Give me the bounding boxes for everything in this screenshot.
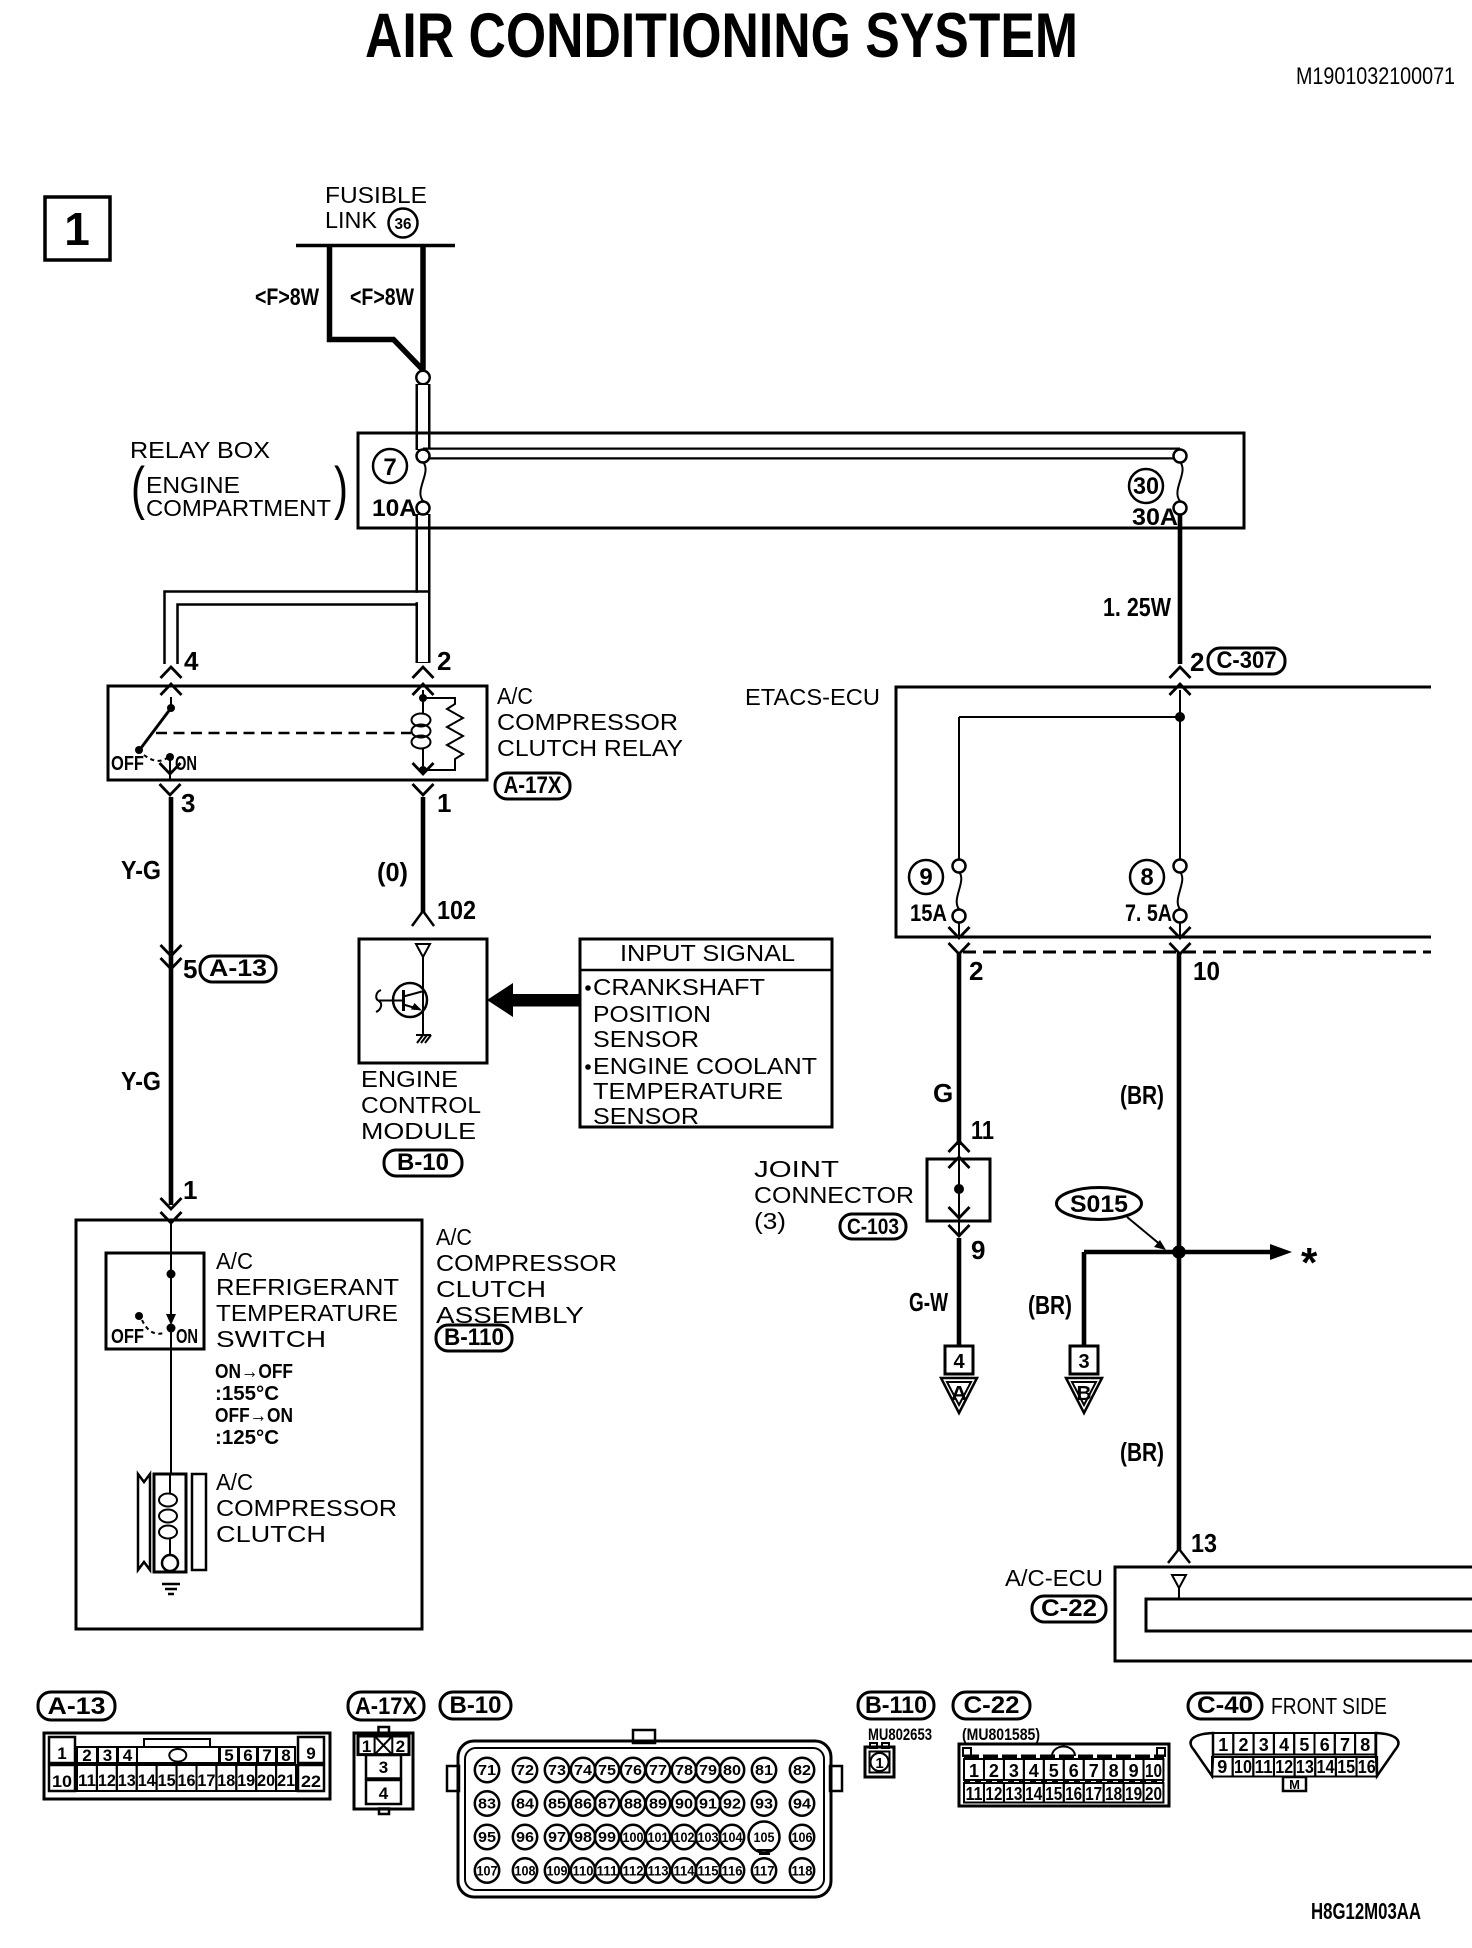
svg-text:13: 13 — [1191, 1528, 1217, 1558]
svg-text:12: 12 — [98, 1771, 116, 1790]
svg-text:M1901032100071: M1901032100071 — [1296, 63, 1455, 90]
svg-text:112: 112 — [623, 1864, 644, 1879]
svg-text:16: 16 — [1065, 1784, 1082, 1804]
connector C-22 drawing — [959, 1744, 1169, 1806]
svg-text:94: 94 — [793, 1796, 812, 1813]
svg-text:14: 14 — [138, 1771, 157, 1790]
ECM pin symbol — [416, 944, 430, 957]
terminal 3 — [1070, 1346, 1098, 1374]
svg-text:8: 8 — [1140, 864, 1153, 891]
svg-text:LINK: LINK — [325, 207, 378, 233]
svg-text:82: 82 — [793, 1762, 811, 1779]
connector A-17X drawing — [379, 1727, 390, 1733]
inline connector 5 A-13 — [161, 945, 182, 956]
svg-text:OFF: OFF — [111, 753, 144, 775]
svg-text:10: 10 — [1145, 1761, 1162, 1781]
relay pin 3 — [160, 763, 181, 774]
svg-text:17: 17 — [1085, 1784, 1102, 1804]
svg-text:73: 73 — [548, 1762, 566, 1779]
svg-text:71: 71 — [478, 1762, 496, 1779]
relay pin 2 — [413, 667, 434, 678]
svg-text:9: 9 — [1129, 1761, 1139, 1781]
ground inside ECM — [416, 1035, 431, 1043]
svg-text:FUSIBLE: FUSIBLE — [325, 182, 427, 208]
A/C compressor clutch relay box A-17X — [108, 686, 487, 780]
svg-text:13: 13 — [118, 1771, 136, 1790]
A/C compressor clutch coil — [138, 1474, 150, 1570]
svg-text:COMPRESSOR: COMPRESSOR — [497, 709, 678, 735]
svg-text:2: 2 — [989, 1761, 999, 1781]
svg-text:102: 102 — [437, 895, 476, 925]
wire (BR) from ETACS pin10 — [1177, 953, 1182, 1551]
connector B-10 drawing — [633, 1730, 655, 1743]
svg-text:72: 72 — [516, 1762, 534, 1779]
input signal box — [580, 939, 832, 1127]
svg-text:18: 18 — [217, 1771, 235, 1790]
svg-text:19: 19 — [1125, 1784, 1142, 1804]
terminal 4 — [945, 1346, 973, 1374]
svg-text:103: 103 — [698, 1830, 719, 1845]
svg-text:FRONT SIDE: FRONT SIDE — [1271, 1693, 1387, 1719]
connector C-40 drawing — [1191, 1733, 1213, 1776]
svg-text:4: 4 — [379, 1784, 389, 1803]
svg-text:1: 1 — [1218, 1735, 1228, 1755]
svg-text:110: 110 — [573, 1864, 594, 1879]
svg-text:7: 7 — [1340, 1735, 1350, 1755]
svg-text:3: 3 — [1078, 1351, 1089, 1373]
relay box outline — [358, 433, 1244, 528]
svg-text:C-22: C-22 — [1041, 1595, 1097, 1622]
svg-text:95: 95 — [478, 1829, 496, 1846]
svg-text:91: 91 — [699, 1796, 717, 1813]
connector label B-10 — [384, 1150, 462, 1176]
svg-text:96: 96 — [516, 1829, 534, 1846]
fusible link right leg <F>8W — [420, 245, 426, 371]
svg-text:118: 118 — [792, 1864, 813, 1879]
svg-text:4: 4 — [953, 1351, 965, 1373]
svg-text:2: 2 — [969, 956, 983, 986]
svg-text:8: 8 — [281, 1746, 290, 1765]
svg-text:107: 107 — [477, 1864, 498, 1879]
ETACS pin 10 output — [1170, 927, 1191, 938]
svg-text:OFF: OFF — [111, 1326, 144, 1348]
svg-text:3: 3 — [103, 1746, 112, 1765]
svg-text:A-17X: A-17X — [355, 1693, 417, 1720]
svg-text:2: 2 — [82, 1746, 91, 1765]
wire (double line) bus fuse7 to fuse30 — [423, 448, 1180, 460]
svg-text:78: 78 — [675, 1762, 693, 1779]
relay pin 1 — [413, 763, 434, 774]
svg-text:15: 15 — [1337, 1757, 1355, 1777]
fuse 8 7.5A — [1130, 860, 1164, 894]
ETACS dashed boundary — [963, 951, 1431, 954]
svg-text:109: 109 — [547, 1864, 568, 1879]
svg-text:15: 15 — [1045, 1784, 1062, 1804]
svg-text:99: 99 — [598, 1829, 616, 1846]
destination triangle B — [1066, 1378, 1102, 1413]
wire G from ETACS pin2 — [957, 953, 962, 1145]
svg-text:2: 2 — [1190, 647, 1204, 677]
svg-text:100: 100 — [623, 1830, 644, 1845]
svg-text:G: G — [933, 1078, 953, 1108]
svg-text:30: 30 — [1133, 473, 1159, 500]
svg-text:114: 114 — [674, 1864, 695, 1879]
connector label B-10 — [440, 1692, 511, 1719]
svg-text:21: 21 — [277, 1771, 295, 1790]
svg-text:C-22: C-22 — [964, 1692, 1020, 1719]
terminal at fusible link output — [416, 371, 429, 384]
svg-text:12: 12 — [985, 1784, 1002, 1804]
fuse 9 15A — [909, 860, 943, 894]
svg-text:102: 102 — [674, 1830, 695, 1845]
svg-text:H8G12M03AA: H8G12M03AA — [1311, 1898, 1421, 1924]
svg-text:CLUTCH: CLUTCH — [216, 1521, 326, 1547]
svg-text:1: 1 — [64, 203, 90, 255]
svg-text:12: 12 — [1275, 1757, 1293, 1777]
wire 1.25W fuse30 to ETACS pin 2 — [1178, 514, 1183, 664]
svg-text:15A: 15A — [910, 900, 947, 927]
svg-text:2: 2 — [1238, 1735, 1248, 1755]
svg-text:C-103: C-103 — [847, 1214, 899, 1239]
svg-text::125°C: :125°C — [215, 1427, 279, 1449]
svg-text:116: 116 — [722, 1864, 743, 1879]
svg-text:8: 8 — [1360, 1735, 1370, 1755]
svg-text:7: 7 — [262, 1746, 271, 1765]
svg-text:A: A — [951, 1383, 967, 1405]
svg-text:CONTROL: CONTROL — [361, 1092, 481, 1118]
svg-text:Y-G: Y-G — [121, 855, 161, 885]
svg-text:11: 11 — [78, 1771, 96, 1790]
svg-text:90: 90 — [675, 1796, 693, 1813]
svg-text:22: 22 — [301, 1772, 321, 1791]
svg-text:(MU801585): (MU801585) — [962, 1725, 1040, 1744]
svg-text:5: 5 — [1299, 1735, 1309, 1755]
svg-text:OFF→ON: OFF→ON — [215, 1405, 293, 1427]
svg-text:3: 3 — [1259, 1735, 1269, 1755]
fusible link bus bar — [296, 244, 455, 248]
svg-text:CLUTCH: CLUTCH — [436, 1276, 546, 1302]
relay pin 4 — [161, 667, 182, 678]
svg-text:16: 16 — [1358, 1757, 1376, 1777]
svg-text:Y-G: Y-G — [121, 1066, 161, 1096]
svg-text:74: 74 — [574, 1762, 593, 1779]
svg-text:101: 101 — [648, 1830, 669, 1845]
transistor Q inside ECM — [393, 983, 427, 1017]
connector label A-17X — [348, 1692, 424, 1720]
ETACS pin 2 output — [949, 927, 970, 938]
svg-text:11: 11 — [971, 1115, 994, 1145]
svg-text:B-10: B-10 — [450, 1692, 502, 1719]
svg-text:ON: ON — [176, 1326, 198, 1348]
relay coil — [422, 690, 424, 702]
svg-text:AIR CONDITIONING SYSTEM: AIR CONDITIONING SYSTEM — [365, 1, 1078, 71]
fuse 7 10A — [373, 449, 407, 483]
svg-text:75: 75 — [598, 1762, 616, 1779]
svg-text:COMPRESSOR: COMPRESSOR — [436, 1250, 617, 1276]
connector label A-13 — [38, 1692, 115, 1720]
svg-text:86: 86 — [574, 1796, 592, 1813]
svg-text:(3): (3) — [754, 1208, 786, 1234]
wire (BR) branch to terminal 3 — [1084, 1252, 1179, 1346]
svg-text:16: 16 — [178, 1771, 196, 1790]
connector label B-110 — [858, 1692, 934, 1719]
ETACS-ECU box outline — [896, 687, 1431, 937]
svg-text:C-40: C-40 — [1197, 1692, 1253, 1719]
svg-text:CRANKSHAFT: CRANKSHAFT — [593, 974, 765, 1000]
svg-text:ON→OFF: ON→OFF — [215, 1361, 293, 1383]
relay switch — [170, 697, 172, 708]
svg-text:6: 6 — [243, 1746, 252, 1765]
wire branch to relay pin 4 — [165, 592, 430, 665]
svg-text:20: 20 — [257, 1771, 275, 1790]
svg-text:CONNECTOR: CONNECTOR — [754, 1182, 914, 1208]
svg-text:1. 25W: 1. 25W — [1103, 592, 1171, 622]
svg-text:4: 4 — [184, 646, 199, 676]
svg-text:106: 106 — [792, 1830, 813, 1845]
svg-text:S015: S015 — [1070, 1191, 1128, 1218]
svg-text:POSITION: POSITION — [593, 1001, 711, 1027]
splice S015 — [1057, 1188, 1142, 1220]
relay internal dashed link — [156, 732, 411, 735]
svg-text:A/C: A/C — [436, 1224, 472, 1250]
connector label C-40 — [1188, 1693, 1262, 1719]
svg-text:92: 92 — [723, 1796, 741, 1813]
destination triangle A — [941, 1378, 977, 1413]
svg-text:3: 3 — [379, 1758, 388, 1777]
wire (double line) fusible link to fuse 7 — [416, 384, 431, 450]
A/C refrigerant temperature switch — [106, 1253, 204, 1349]
svg-text:COMPRESSOR: COMPRESSOR — [216, 1495, 397, 1521]
svg-text:13: 13 — [1005, 1784, 1022, 1804]
svg-text:(0): (0) — [377, 857, 408, 887]
svg-text:77: 77 — [649, 1762, 667, 1779]
svg-text:SENSOR: SENSOR — [593, 1026, 699, 1052]
svg-text:3: 3 — [1009, 1761, 1019, 1781]
svg-text:9: 9 — [1217, 1757, 1227, 1777]
svg-text:<F>8W: <F>8W — [255, 284, 319, 311]
ECM pin 102 fork — [412, 911, 434, 926]
svg-text:30A: 30A — [1132, 504, 1178, 531]
svg-text:A/C-ECU: A/C-ECU — [1005, 1565, 1103, 1591]
svg-text:10: 10 — [1193, 956, 1220, 986]
wire Y-G relay pin3 to temperature switch — [169, 797, 174, 1205]
svg-text:98: 98 — [574, 1829, 592, 1846]
svg-text:7. 5A: 7. 5A — [1125, 900, 1172, 927]
engine control module box B-10 — [359, 939, 487, 1063]
connector label B-110 — [436, 1325, 512, 1351]
svg-text:6: 6 — [1069, 1761, 1079, 1781]
svg-text:87: 87 — [598, 1796, 616, 1813]
svg-text:80: 80 — [723, 1762, 741, 1779]
ground in clutch — [162, 1584, 180, 1594]
svg-text:JOINT: JOINT — [754, 1156, 839, 1182]
svg-text:CLUTCH RELAY: CLUTCH RELAY — [497, 735, 683, 761]
ETACS internal wires — [1179, 690, 1181, 859]
svg-text:ENGINE COOLANT: ENGINE COOLANT — [593, 1053, 817, 1079]
svg-text:MODULE: MODULE — [361, 1118, 476, 1144]
svg-text:117: 117 — [754, 1864, 775, 1879]
svg-text:9: 9 — [971, 1235, 985, 1265]
svg-text:10A: 10A — [372, 495, 417, 522]
svg-text:13: 13 — [1296, 1757, 1314, 1777]
svg-text:TEMPERATURE: TEMPERATURE — [216, 1300, 398, 1326]
svg-text:10: 10 — [1234, 1757, 1252, 1777]
svg-text:SWITCH: SWITCH — [216, 1326, 326, 1352]
svg-text:): ) — [334, 456, 348, 521]
svg-text:84: 84 — [516, 1796, 535, 1813]
svg-text:4: 4 — [1029, 1761, 1039, 1781]
svg-text:18: 18 — [1105, 1784, 1122, 1804]
relay coil parallel resistor — [423, 698, 463, 770]
connector label C-22 — [953, 1692, 1030, 1719]
svg-text:14: 14 — [1317, 1757, 1335, 1777]
page number box 1 — [45, 197, 110, 260]
wire (O) relay pin1 to ECM — [421, 797, 426, 913]
connector label C-22 — [1032, 1596, 1106, 1622]
svg-text:2: 2 — [437, 646, 451, 676]
svg-text:19: 19 — [237, 1771, 255, 1790]
svg-text:(BR): (BR) — [1028, 1290, 1072, 1320]
svg-text:ENGINE: ENGINE — [361, 1066, 458, 1092]
svg-text:B-10: B-10 — [397, 1149, 449, 1176]
svg-text:A-13: A-13 — [209, 955, 267, 982]
svg-text:5: 5 — [224, 1746, 233, 1765]
A/C compressor clutch assembly box B-110 — [76, 1220, 422, 1629]
svg-text:36: 36 — [395, 216, 412, 233]
svg-text:5: 5 — [1049, 1761, 1059, 1781]
svg-text:(BR): (BR) — [1120, 1437, 1164, 1467]
svg-text:7: 7 — [1089, 1761, 1099, 1781]
svg-text:2: 2 — [396, 1737, 405, 1756]
svg-text:11: 11 — [966, 1784, 983, 1804]
svg-text:A/C: A/C — [216, 1469, 253, 1495]
svg-text:A-13: A-13 — [48, 1693, 106, 1720]
svg-text:1: 1 — [875, 1755, 883, 1772]
svg-text:4: 4 — [1279, 1735, 1289, 1755]
svg-text:C-307: C-307 — [1217, 647, 1277, 674]
svg-text:1: 1 — [969, 1761, 979, 1781]
junction dot S015 — [1172, 1245, 1186, 1259]
svg-text:81: 81 — [755, 1762, 773, 1779]
svg-text:B: B — [1077, 1383, 1092, 1405]
svg-text:1: 1 — [437, 788, 451, 818]
connector A-13 drawing — [44, 1733, 330, 1799]
svg-text:MU802653: MU802653 — [868, 1725, 932, 1744]
svg-text:1: 1 — [183, 1175, 197, 1205]
svg-text:1: 1 — [362, 1737, 371, 1756]
svg-text:A-17X: A-17X — [504, 772, 562, 799]
wire to * — [1179, 1250, 1270, 1255]
svg-text:5: 5 — [183, 954, 197, 984]
svg-text:9: 9 — [306, 1744, 315, 1763]
svg-text:79: 79 — [699, 1762, 717, 1779]
svg-text:105: 105 — [754, 1830, 775, 1845]
svg-text:14: 14 — [1025, 1784, 1042, 1804]
svg-text:M: M — [1289, 1777, 1300, 1792]
svg-text:1: 1 — [57, 1744, 66, 1763]
svg-text:6: 6 — [1320, 1735, 1330, 1755]
svg-text:(BR): (BR) — [1120, 1080, 1164, 1110]
svg-text:108: 108 — [515, 1864, 536, 1879]
svg-text:B-110: B-110 — [444, 1324, 504, 1351]
svg-text:111: 111 — [597, 1864, 618, 1879]
svg-text:4: 4 — [123, 1746, 133, 1765]
svg-text:8: 8 — [1109, 1761, 1119, 1781]
svg-text:TEMPERATURE: TEMPERATURE — [593, 1078, 783, 1104]
svg-text:9: 9 — [919, 864, 932, 891]
svg-text:(: ( — [131, 456, 145, 521]
svg-text:ETACS-ECU: ETACS-ECU — [745, 684, 880, 710]
svg-text:INPUT SIGNAL: INPUT SIGNAL — [620, 940, 795, 966]
svg-text:20: 20 — [1145, 1784, 1162, 1804]
connector B-110 drawing — [870, 1743, 877, 1748]
svg-text:B-110: B-110 — [865, 1692, 927, 1719]
input signal arrow — [487, 983, 513, 1017]
svg-text:93: 93 — [755, 1796, 773, 1813]
svg-text:89: 89 — [649, 1796, 667, 1813]
svg-text:113: 113 — [648, 1864, 669, 1879]
svg-text:10: 10 — [52, 1772, 72, 1791]
wire G-W to terminal 4 — [957, 1238, 962, 1346]
wire (double line) fuse 7 down to relay branch — [416, 514, 431, 663]
svg-text:A/C: A/C — [497, 683, 533, 709]
connector label A-17X — [495, 773, 570, 799]
fuse 30 30A — [1129, 469, 1163, 503]
svg-text:RELAY BOX: RELAY BOX — [130, 437, 270, 463]
wire switch to clutch coil — [170, 1330, 172, 1474]
svg-text:3: 3 — [181, 788, 195, 818]
svg-text:G-W: G-W — [909, 1287, 948, 1317]
svg-text::155°C: :155°C — [215, 1383, 279, 1405]
svg-text:83: 83 — [478, 1796, 496, 1813]
svg-text:15: 15 — [158, 1771, 176, 1790]
svg-text:17: 17 — [197, 1771, 215, 1790]
svg-text:A/C: A/C — [216, 1248, 253, 1274]
fusible link left leg <F>8W — [330, 245, 423, 369]
svg-text:REFRIGERANT: REFRIGERANT — [216, 1274, 399, 1300]
svg-text:88: 88 — [624, 1796, 642, 1813]
svg-text:11: 11 — [1255, 1757, 1273, 1777]
svg-text:*: * — [1301, 1239, 1318, 1286]
svg-text:<F>8W: <F>8W — [350, 284, 414, 311]
svg-text:115: 115 — [698, 1864, 719, 1879]
svg-text:7: 7 — [383, 454, 396, 481]
svg-text:SENSOR: SENSOR — [593, 1103, 699, 1129]
svg-text:85: 85 — [548, 1796, 566, 1813]
svg-text:76: 76 — [624, 1762, 642, 1779]
svg-text:COMPARTMENT: COMPARTMENT — [146, 495, 331, 521]
svg-text:97: 97 — [548, 1829, 566, 1846]
A/C-ECU box — [1115, 1567, 1472, 1661]
svg-text:104: 104 — [722, 1830, 743, 1845]
